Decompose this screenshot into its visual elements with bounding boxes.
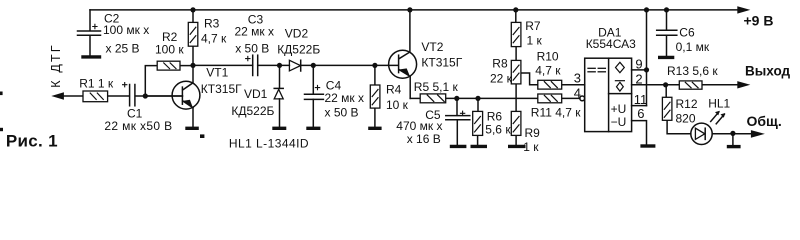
svg-text:R13 5,6 к: R13 5,6 к <box>667 64 718 78</box>
svg-text:КТ315Г: КТ315Г <box>201 82 242 96</box>
svg-text:22 к: 22 к <box>490 72 513 86</box>
svg-text:R7: R7 <box>525 19 541 33</box>
svg-text:HL1: HL1 <box>708 97 730 111</box>
svg-text:VT1: VT1 <box>206 65 228 79</box>
svg-text:HL1 L-1344ID: HL1 L-1344ID <box>229 137 309 151</box>
svg-text:R5 5,1 к: R5 5,1 к <box>414 80 459 94</box>
svg-text:VD1: VD1 <box>244 87 268 101</box>
svg-text:R9: R9 <box>525 126 541 140</box>
svg-text:КД522Б: КД522Б <box>231 104 274 118</box>
svg-text:10 к: 10 к <box>386 98 409 112</box>
svg-text:R12: R12 <box>676 97 698 111</box>
svg-text:R8: R8 <box>492 57 508 71</box>
svg-text:C6: C6 <box>679 25 695 39</box>
svg-text:100 мк х: 100 мк х <box>103 23 149 37</box>
svg-text:1 к: 1 к <box>523 140 539 154</box>
svg-text:4: 4 <box>574 86 581 101</box>
svg-text:22 мк х: 22 мк х <box>235 25 275 39</box>
svg-text:R3: R3 <box>204 17 220 31</box>
svg-text:−U: −U <box>611 115 627 129</box>
svg-text:х 50 В: х 50 В <box>325 105 359 119</box>
svg-text:+U: +U <box>611 102 627 116</box>
svg-text:R10: R10 <box>537 49 559 63</box>
svg-text:VT2: VT2 <box>421 40 443 54</box>
svg-text:2: 2 <box>635 71 642 86</box>
svg-text:3: 3 <box>574 71 581 86</box>
svg-text:6: 6 <box>637 106 644 121</box>
svg-text:5,6 к: 5,6 к <box>485 122 511 136</box>
svg-text:К ДТГ: К ДТГ <box>49 43 63 88</box>
svg-text:R1 1 к: R1 1 к <box>79 77 114 91</box>
svg-text:х 50 В: х 50 В <box>235 41 269 55</box>
svg-text:R6: R6 <box>487 109 503 123</box>
svg-text:22 мк х50 В: 22 мк х50 В <box>104 119 172 133</box>
svg-text:К554СА3: К554СА3 <box>586 37 636 51</box>
svg-text:х 16 В: х 16 В <box>407 132 441 146</box>
svg-text:100 к: 100 к <box>155 43 184 57</box>
svg-text:КД522Б: КД522Б <box>277 43 320 57</box>
svg-text:9: 9 <box>635 56 642 71</box>
svg-text:Выход: Выход <box>745 64 791 79</box>
svg-text:11: 11 <box>634 92 648 107</box>
svg-text:VD2: VD2 <box>285 27 309 41</box>
svg-text:0,1 мк: 0,1 мк <box>676 40 710 54</box>
svg-text:Общ.: Общ. <box>747 113 782 129</box>
svg-text:4,7 к: 4,7 к <box>201 31 227 45</box>
svg-text:R4: R4 <box>386 83 402 97</box>
svg-text:КТ315Г: КТ315Г <box>421 55 462 69</box>
svg-text:22 мк х: 22 мк х <box>325 91 365 105</box>
svg-text:+9 В: +9 В <box>744 13 774 29</box>
svg-text:R11 4,7 к: R11 4,7 к <box>531 105 581 119</box>
svg-text:Рис. 1: Рис. 1 <box>6 131 58 150</box>
svg-text:1 к: 1 к <box>527 33 543 47</box>
svg-text:820: 820 <box>676 112 696 126</box>
svg-text:4,7 к: 4,7 к <box>535 64 561 78</box>
svg-text:х 25 В: х 25 В <box>106 41 140 55</box>
